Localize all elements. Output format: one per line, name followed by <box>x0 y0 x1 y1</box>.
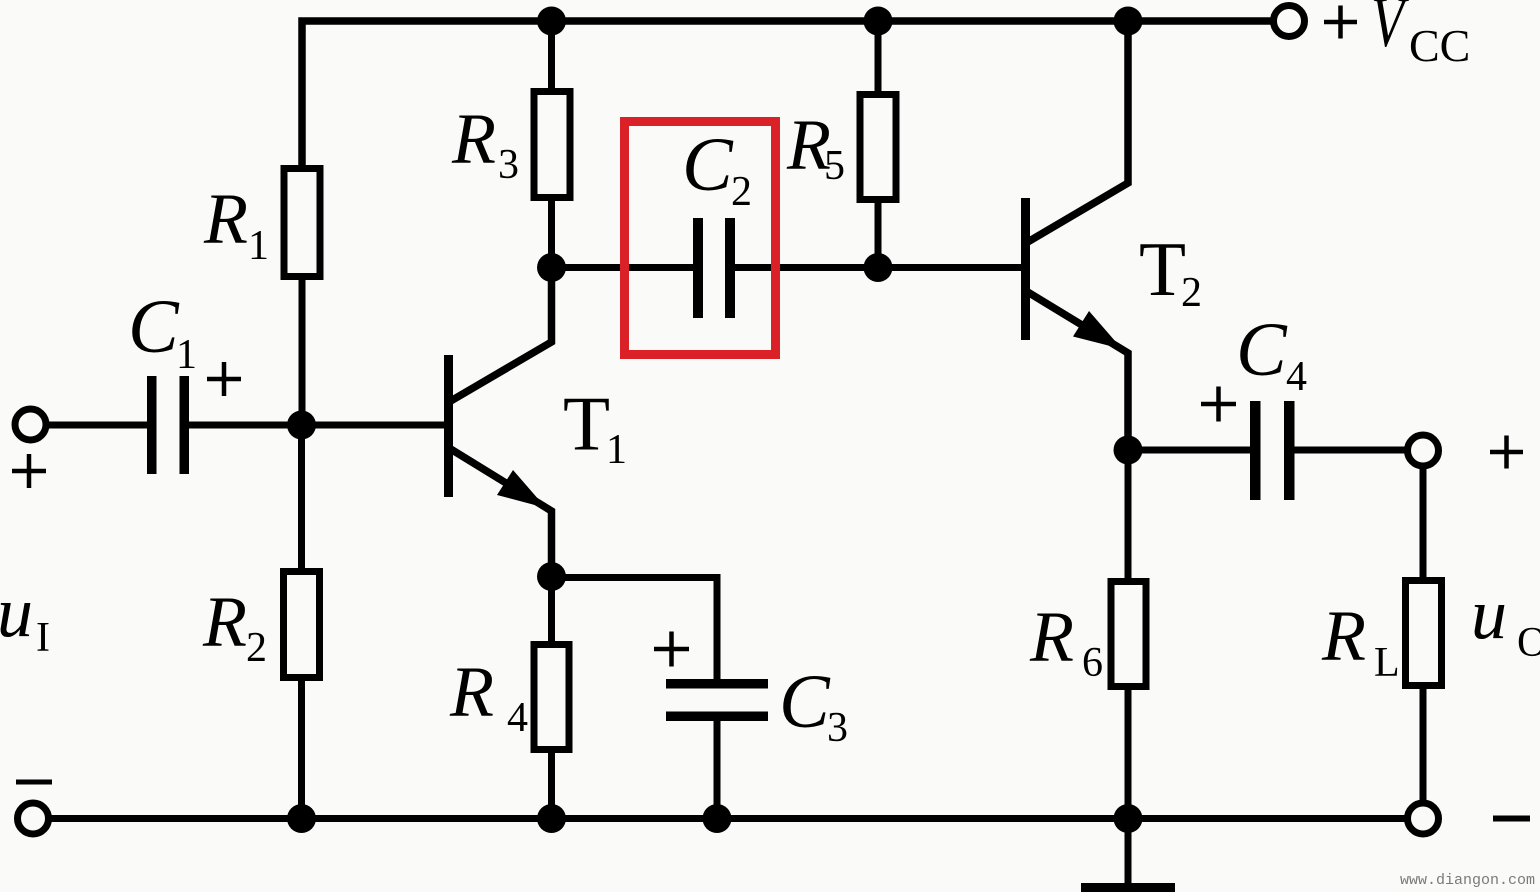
svg-text:T: T <box>1139 226 1186 312</box>
wire T2 collector <box>1026 21 1128 243</box>
wire node to C4 <box>1128 447 1250 454</box>
svg-text:www.diangon.com: www.diangon.com <box>1400 872 1535 889</box>
junction dot bottom rail ground <box>1114 804 1143 833</box>
wire R5 top <box>875 21 882 91</box>
plus sign near C4 <box>1201 387 1236 422</box>
capacitor C4 plates <box>1250 401 1261 500</box>
wire ground stem <box>1125 818 1132 883</box>
terminal output top <box>1408 435 1439 466</box>
svg-text:5: 5 <box>824 143 845 189</box>
minus sign input <box>16 780 52 785</box>
svg-text:6: 6 <box>1082 640 1103 686</box>
wire C3 bottom <box>714 721 721 818</box>
svg-text:1: 1 <box>176 332 197 378</box>
wire T2 emitter <box>1026 291 1128 450</box>
svg-text:R: R <box>203 179 248 259</box>
capacitor C1 plates <box>147 376 157 474</box>
svg-text:4: 4 <box>507 695 528 741</box>
wire R6 top <box>1125 450 1132 578</box>
svg-text:O: O <box>1517 620 1540 666</box>
junction dot top rail T2 collector <box>1114 7 1143 36</box>
node T2 emitter <box>1114 436 1143 465</box>
transistor T1 base bar <box>444 355 453 497</box>
svg-text:R: R <box>202 582 247 662</box>
wire R4 top <box>548 576 555 641</box>
resistor R1 <box>284 169 320 277</box>
junction dot bottom rail C3 <box>703 804 732 833</box>
svg-text:R: R <box>451 99 496 179</box>
wire R4 bottom <box>548 753 555 818</box>
svg-text:C: C <box>128 285 180 369</box>
capacitor C2 plates <box>693 218 703 318</box>
svg-text:CC: CC <box>1409 20 1470 71</box>
wire output terminal to RL <box>1420 466 1427 577</box>
wire R3 bottom to node <box>548 201 555 268</box>
plus sign VCC <box>1324 6 1357 39</box>
wire node to C2 left plate <box>552 264 694 271</box>
resistor RL <box>1406 581 1442 686</box>
resistor R3 <box>534 92 570 198</box>
junction dot R3/C2 node <box>537 253 566 282</box>
wire C2 right plate to node <box>735 264 878 271</box>
arrow T2 emitter <box>1073 311 1122 349</box>
resistor R2 <box>284 572 320 678</box>
junction dot top rail R5 <box>864 7 893 36</box>
svg-text:1: 1 <box>606 427 627 473</box>
wire R5 bottom to node <box>875 203 882 268</box>
terminal input top <box>15 409 46 440</box>
resistor R4 <box>534 645 569 750</box>
svg-text:R: R <box>1321 596 1366 676</box>
plus sign near C1 <box>207 362 241 396</box>
plus sign output <box>1490 436 1523 469</box>
terminal output bottom <box>1408 803 1439 834</box>
svg-text:V: V <box>1371 0 1409 62</box>
terminal VCC <box>1274 6 1305 37</box>
svg-text:R: R <box>1029 597 1074 677</box>
resistor R6 <box>1111 582 1146 687</box>
junction dot top rail R3 <box>537 7 566 36</box>
wire RL bottom <box>1420 689 1427 803</box>
svg-text:1: 1 <box>248 223 269 269</box>
svg-text:4: 4 <box>1286 354 1307 400</box>
svg-text:u: u <box>0 572 33 652</box>
junction dot T1 base node <box>287 411 316 440</box>
plus sign input <box>12 454 46 488</box>
junction dot bottom rail R4 <box>537 804 566 833</box>
wire C4 to output <box>1295 447 1409 454</box>
wire input to T1 base <box>48 422 147 429</box>
junction dot R5/T2 base node <box>864 253 893 282</box>
wire T1 collector <box>449 267 552 402</box>
svg-text:2: 2 <box>246 625 267 671</box>
svg-text:C: C <box>1236 308 1288 392</box>
arrow T1 emitter <box>497 470 546 508</box>
wire R2 to bottom rail <box>298 681 305 818</box>
svg-text:L: L <box>1374 640 1400 686</box>
ground bar <box>1081 883 1175 892</box>
svg-text:3: 3 <box>498 142 519 188</box>
svg-text:I: I <box>36 615 50 661</box>
svg-text:3: 3 <box>827 705 848 751</box>
minus sign output <box>1493 816 1530 822</box>
svg-text:R: R <box>449 652 494 732</box>
wire node to R2 <box>298 425 305 568</box>
wire emitter node to C3 <box>552 578 718 680</box>
bottom rail <box>51 815 1405 822</box>
wire R1 to base node <box>299 280 306 429</box>
svg-text:C: C <box>682 123 734 207</box>
svg-text:u: u <box>1471 574 1507 654</box>
svg-text:C: C <box>779 660 831 744</box>
junction dot bottom rail R2 <box>287 804 316 833</box>
plus sign near C3 <box>654 632 689 667</box>
wire top rail VCC <box>302 21 1271 165</box>
terminal input bottom <box>18 803 49 834</box>
svg-text:2: 2 <box>731 169 752 215</box>
transistor T2 base bar <box>1021 198 1030 340</box>
capacitor C3 plates <box>666 679 768 689</box>
wire T1 emitter <box>449 448 552 577</box>
svg-text:2: 2 <box>1181 270 1202 316</box>
svg-text:T: T <box>563 381 610 467</box>
wire R3 top <box>548 21 555 88</box>
node T1 emitter <box>537 562 566 591</box>
red highlight box around C2 <box>625 122 776 355</box>
wire R6 bottom <box>1125 690 1132 818</box>
resistor R5 <box>860 95 896 200</box>
wire node to T2 base <box>878 264 1022 271</box>
wire C1 to T1 base <box>189 422 445 429</box>
